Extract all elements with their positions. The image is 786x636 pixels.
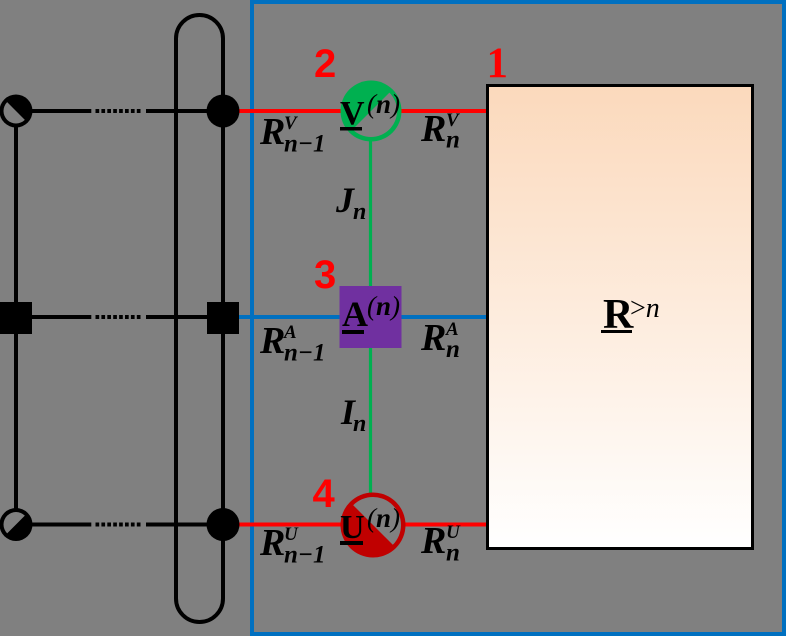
- svg-text:(n): (n): [367, 291, 400, 321]
- svg-text:>n: >n: [630, 293, 660, 324]
- svg-text:R: R: [259, 111, 285, 153]
- svg-text:J: J: [335, 180, 355, 220]
- svg-text:3: 3: [314, 253, 336, 297]
- svg-text:R: R: [420, 317, 446, 359]
- svg-text:V: V: [340, 95, 365, 132]
- svg-text:n−1: n−1: [284, 542, 326, 569]
- svg-text:n−1: n−1: [284, 340, 326, 367]
- svg-text:n−1: n−1: [284, 131, 326, 158]
- svg-text:(n): (n): [367, 503, 400, 533]
- svg-text:n: n: [446, 127, 460, 154]
- svg-text:n: n: [446, 336, 460, 363]
- svg-text:(n): (n): [367, 89, 400, 119]
- svg-text:1: 1: [487, 40, 509, 87]
- svg-text:4: 4: [313, 472, 336, 516]
- svg-text:R: R: [259, 320, 285, 362]
- svg-text:n: n: [353, 199, 366, 225]
- svg-text:n: n: [446, 540, 460, 567]
- svg-text:n: n: [353, 411, 366, 437]
- svg-text:2: 2: [314, 42, 336, 86]
- svg-text:R: R: [259, 522, 285, 564]
- svg-text:U: U: [340, 509, 365, 546]
- svg-text:R: R: [420, 520, 446, 562]
- svg-text:R: R: [420, 108, 446, 150]
- svg-text:A: A: [342, 294, 368, 334]
